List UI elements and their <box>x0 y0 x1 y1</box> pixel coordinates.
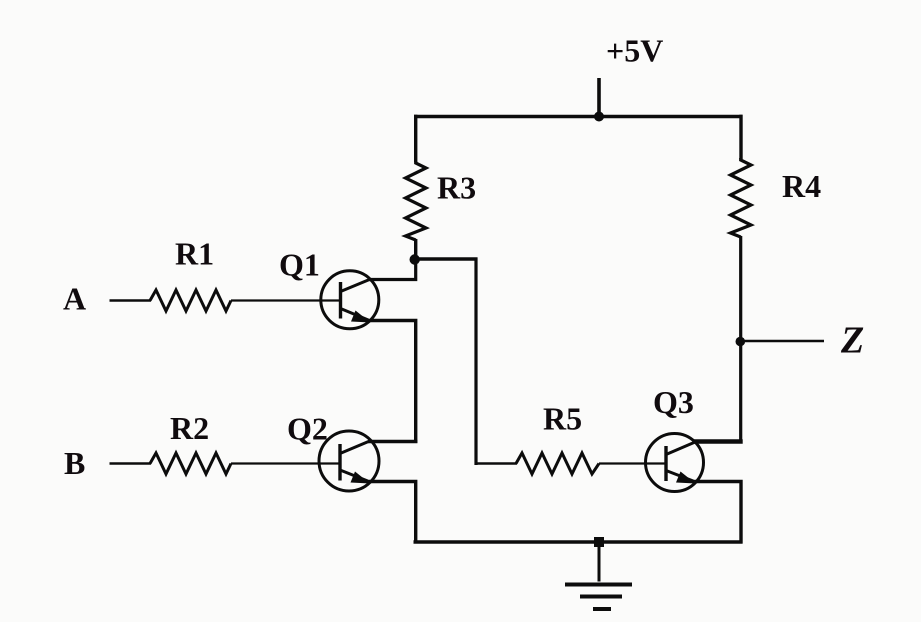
ground rail wire <box>414 540 743 543</box>
+5V supply stem wire <box>597 78 601 118</box>
svg-text:R3: R3 <box>437 170 476 206</box>
ground stem wire <box>598 542 601 582</box>
svg-text:B: B <box>64 445 85 481</box>
junction dot ground rail <box>594 537 604 547</box>
transistor Q1 <box>321 271 379 329</box>
node wire to line B <box>415 257 478 261</box>
wire R4 to Q3 collector <box>739 236 742 443</box>
wire R3 to node <box>414 239 417 261</box>
wire A to R1 <box>110 299 152 302</box>
wire top rail to R4 <box>739 115 742 159</box>
wire Q2 collector <box>368 440 417 443</box>
wire top rail to R3 <box>414 115 417 162</box>
transistor Q2 <box>319 431 379 491</box>
resistor R5 <box>516 453 599 474</box>
top rail wire <box>414 115 743 119</box>
svg-text:R1: R1 <box>175 236 214 272</box>
wire Q2 emitter to ground rail <box>369 482 416 544</box>
wire Q1 collector <box>369 258 416 280</box>
wire R1 to Q1 base <box>231 299 341 301</box>
wire Q3 collector to output rail <box>693 439 743 444</box>
junction dot output node Z <box>736 337 746 347</box>
resistor R1 <box>150 290 231 311</box>
svg-text:A: A <box>63 281 86 317</box>
wire line B to R5 <box>475 462 518 465</box>
junction dot +5V/top rail <box>594 112 604 122</box>
transistor Q3 <box>646 434 704 492</box>
resistor R4 <box>731 158 752 237</box>
svg-text:R4: R4 <box>782 168 821 204</box>
ground symbol <box>565 585 632 610</box>
resistor R3 <box>406 161 427 240</box>
svg-text:R2: R2 <box>170 410 209 446</box>
svg-text:Q2: Q2 <box>287 411 328 447</box>
svg-text:+5V: +5V <box>606 33 663 69</box>
vertical wire node to R5 <box>474 258 477 466</box>
wire B to R2 <box>110 462 152 465</box>
wire node to Z <box>740 340 824 343</box>
junction dot R3/node <box>410 254 420 264</box>
wire Q1 emitter to Q2 collector <box>370 321 416 444</box>
wire R2 to Q2 base <box>231 462 340 464</box>
svg-text:Q3: Q3 <box>653 384 694 420</box>
svg-text:Z: Z <box>840 320 864 362</box>
wire Q3 emitter to ground rail <box>695 482 742 544</box>
wire R5 to Q3 base <box>599 462 666 464</box>
svg-text:R5: R5 <box>543 401 582 437</box>
resistor R2 <box>150 453 231 474</box>
svg-text:Q1: Q1 <box>279 247 320 283</box>
